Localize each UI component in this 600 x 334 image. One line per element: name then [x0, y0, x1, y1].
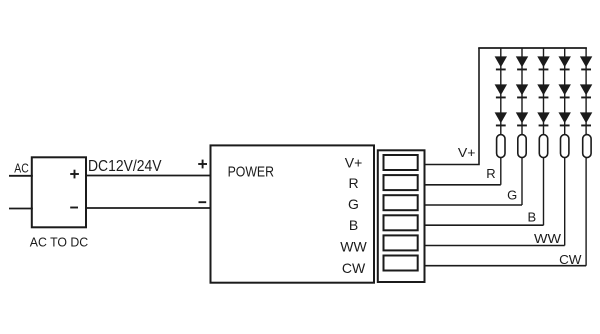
wire R [425, 184, 501, 186]
svg-text:DC12V/24V: DC12V/24V [88, 158, 162, 175]
LED string WW wire [564, 48, 566, 246]
wire B [425, 224, 544, 226]
svg-text:B: B [528, 210, 537, 225]
svg-text:R: R [348, 175, 358, 191]
LED D2 R [495, 84, 507, 98]
terminal 1 [384, 155, 418, 170]
wire WW [425, 245, 565, 247]
svg-text:B: B [349, 217, 358, 233]
wire AC input bottom [9, 208, 33, 210]
terminal 4 [384, 215, 418, 230]
polarity + converter output [70, 170, 79, 179]
LED D2 WW [559, 84, 571, 98]
polarity − controller input [199, 201, 207, 203]
resistor G string [518, 135, 526, 158]
svg-text:V+: V+ [345, 155, 363, 171]
LED D1 CW [580, 56, 592, 70]
resistor R string [497, 135, 505, 158]
resistor B string [539, 135, 547, 158]
LED D3 CW [580, 112, 592, 126]
LED D2 CW [580, 84, 592, 98]
LED string R wire [500, 48, 502, 185]
wire AC input top [9, 175, 33, 177]
wire V+ (terminal to LED anode bus riser) [425, 48, 480, 165]
LED string G wire [521, 48, 523, 205]
svg-text:G: G [348, 196, 359, 212]
LED D1 G [516, 56, 528, 70]
polarity + controller input [198, 160, 207, 169]
LED D2 B [537, 84, 549, 98]
LED string CW wire [585, 48, 587, 266]
LED D1 WW [559, 56, 571, 70]
svg-text:POWER: POWER [228, 164, 275, 181]
svg-text:CW: CW [559, 252, 582, 267]
LED D3 WW [559, 112, 571, 126]
polarity − converter output [70, 207, 78, 209]
svg-text:CW: CW [342, 260, 366, 276]
LED D3 R [495, 112, 507, 126]
svg-text:AC TO DC: AC TO DC [30, 234, 88, 249]
terminal 3 [384, 195, 418, 210]
LED D1 B [537, 56, 549, 70]
svg-text:V+: V+ [458, 145, 476, 160]
terminal 5 [384, 235, 418, 250]
V+ bus (top) [478, 47, 587, 49]
LED D2 G [516, 84, 528, 98]
connector terminal block outline [378, 150, 425, 282]
resistor WW string [561, 135, 569, 158]
controller box POWER [211, 145, 375, 282]
svg-text:G: G [507, 187, 517, 202]
converter box AC TO DC [32, 157, 86, 227]
resistor CW string [583, 135, 591, 158]
LED string B wire [543, 48, 545, 225]
terminal 2 [384, 175, 418, 190]
wire CW [425, 265, 587, 267]
LED D1 R [495, 56, 507, 70]
wire DC − [86, 207, 212, 209]
wire DC + [86, 175, 212, 177]
LED D3 B [537, 112, 549, 126]
svg-text:WW: WW [534, 231, 562, 246]
LED D3 G [516, 112, 528, 126]
wire G [425, 204, 523, 206]
svg-text:WW: WW [340, 239, 367, 255]
svg-text:R: R [486, 166, 495, 181]
terminal 6 [384, 256, 418, 271]
svg-text:AC: AC [14, 161, 28, 176]
